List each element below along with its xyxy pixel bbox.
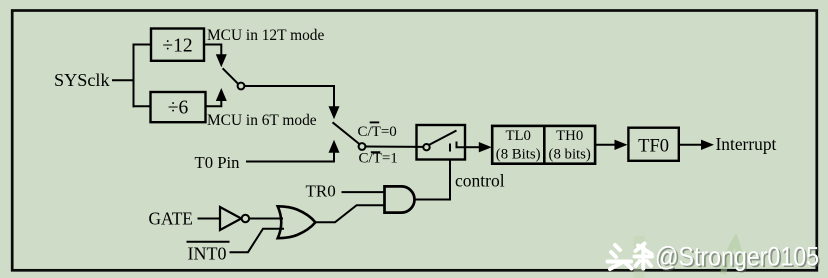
wire T0 Pin to contact (246, 153, 334, 162)
svg-text:(8 Bits): (8 Bits) (496, 147, 541, 163)
label MCU in 6T mode (207, 112, 317, 129)
node GATE (149, 209, 193, 229)
svg-text:(8 bits): (8 bits) (549, 147, 591, 163)
wire control switch to TL0 (465, 146, 479, 148)
svg-text:MCU in 6T mode: MCU in 6T mode (207, 112, 317, 129)
wire branch to DIV6 (133, 105, 151, 107)
wire TR0 to AND (342, 191, 385, 193)
block divider ÷12 (151, 29, 204, 61)
svg-text:GATE: GATE (149, 209, 193, 229)
wire SW2 to control switch (365, 146, 423, 148)
or-gate U5 (278, 206, 316, 238)
register TF0 (628, 128, 678, 161)
svg-text:T0 Pin: T0 Pin (195, 153, 241, 172)
wire NOT to OR (249, 218, 283, 220)
wire DIV12 output to 12T contact (204, 45, 221, 57)
wire TH0 to TF0 (595, 144, 615, 146)
svg-text:÷12: ÷12 (162, 36, 192, 57)
wire AND output to control line (415, 199, 451, 201)
contact arrow 6T (up) (216, 88, 227, 101)
register TL0/TH0 (492, 126, 595, 164)
label C/T=1 (359, 151, 398, 167)
arrow into TL0 (479, 142, 492, 152)
and-gate U3 (385, 186, 415, 212)
node TR0 (306, 181, 336, 200)
svg-text:TL0: TL0 (505, 128, 530, 144)
wire INT0 to OR (230, 229, 285, 253)
wire OR output to AND input (315, 205, 384, 222)
wire branch to DIV12 (133, 44, 152, 46)
node INT0 (active low) (187, 242, 230, 264)
node T0 Pin (195, 153, 241, 172)
switch SW1 pole (223, 68, 245, 89)
wire SW1 to C/T contact (244, 86, 334, 107)
svg-text:C/T=0: C/T=0 (358, 124, 397, 140)
svg-text:MCU in 12T mode: MCU in 12T mode (207, 27, 324, 44)
wire control vertical (449, 160, 451, 201)
wire branch vertical (133, 44, 135, 108)
node SYSclk (54, 70, 110, 90)
watermark handle text (655, 242, 821, 274)
label MCU in 12T mode (207, 27, 324, 44)
control switch box U2 (417, 125, 466, 160)
wire DIV6 output to 6T contact (206, 101, 222, 106)
watermark text 头条 (drawn strokes) (608, 244, 653, 270)
svg-text:÷6: ÷6 (168, 98, 189, 119)
watermark logo sprout (634, 236, 742, 278)
contact arrow 12T (down) (216, 54, 227, 67)
label control (455, 171, 505, 191)
svg-text:control: control (455, 171, 505, 191)
arrow interrupt (701, 140, 714, 150)
svg-text:TR0: TR0 (306, 181, 336, 200)
contact arrow C/T=1 (up) (329, 140, 340, 153)
svg-text:INT0: INT0 (188, 244, 227, 264)
wire TF0 to interrupt (679, 144, 701, 146)
block divider ÷6 (151, 92, 206, 122)
not-gate U4 (220, 207, 249, 230)
label C/T=0 (358, 122, 397, 139)
switch SW2 pole (333, 122, 366, 150)
svg-text:Interrupt: Interrupt (716, 134, 777, 154)
contact arrow C/T=0 (down) (329, 106, 340, 119)
svg-text:@Stronger0105: @Stronger0105 (655, 242, 819, 272)
wire SYSclk to branch (112, 79, 135, 81)
svg-text:SYSclk: SYSclk (54, 70, 110, 90)
label Interrupt (716, 134, 777, 154)
wire GATE to NOT (198, 218, 221, 220)
svg-text:TF0: TF0 (638, 137, 669, 157)
arrow into TF0 (615, 140, 628, 150)
svg-text:TH0: TH0 (556, 128, 583, 144)
